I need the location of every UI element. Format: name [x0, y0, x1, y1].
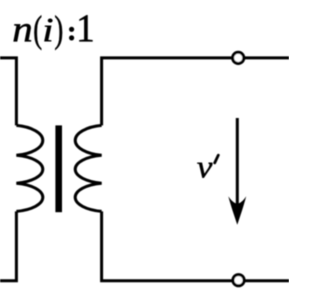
prime mark of v' [215, 155, 219, 163]
label n(i):1 digit 1 [79, 15, 92, 41]
wire top-left stub and left vertical lead [0, 58, 16, 126]
transformer T1 secondary winding (right coil) [75, 125, 101, 211]
terminal bottom-right (open circle) [233, 275, 244, 286]
transformer T1 core bar [55, 125, 62, 212]
label n(i):1 paren close [55, 15, 62, 50]
label n(i):1 letter n [14, 24, 31, 41]
label n(i):1 colon lower dot [69, 35, 74, 40]
transformer T1 primary winding (left coil) [16, 125, 42, 211]
wire bottom-right lead to bottom terminal [102, 211, 289, 280]
terminal top-right (open circle) [233, 52, 244, 63]
label n(i):1 letter i [45, 19, 53, 42]
wire top-right lead to top terminal [102, 58, 289, 126]
label v' letter v [197, 163, 212, 178]
label n(i):1 colon upper dot [69, 27, 74, 32]
voltage reference arrow v' shaft [236, 118, 239, 208]
label n(i):1 paren open [34, 15, 41, 50]
voltage reference arrow v' head [228, 196, 246, 225]
wire bottom-left lead and stub [0, 211, 16, 280]
